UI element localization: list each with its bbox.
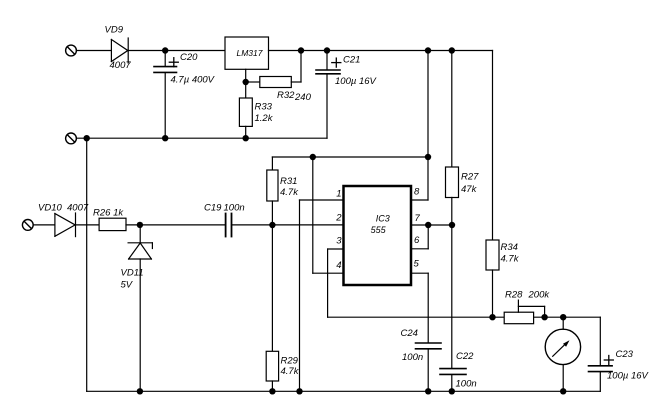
junction R27 top rail xyxy=(449,47,455,53)
junction VD11 top xyxy=(137,222,143,228)
capacitor C24 xyxy=(416,343,442,391)
svg-text:5V: 5V xyxy=(121,280,134,291)
potentiometer R28 xyxy=(504,300,544,324)
junction V+ riser top rail xyxy=(425,47,431,53)
junction pin4 riser xyxy=(310,154,316,160)
wire VD9 to LM317 xyxy=(128,50,225,52)
junction R29 bottom xyxy=(269,388,275,394)
junction pin7 pin6 xyxy=(425,222,431,228)
terminal X3 signal input xyxy=(22,220,33,231)
wire LM317 output to rail end xyxy=(269,50,493,52)
svg-text:VD11: VD11 xyxy=(121,268,144,279)
svg-text:100n: 100n xyxy=(456,379,477,390)
svg-text:R32: R32 xyxy=(277,90,295,101)
junction pin7 R27 line xyxy=(449,222,455,228)
svg-text:4.7µ 400V: 4.7µ 400V xyxy=(171,75,216,86)
zener diode VD11 xyxy=(128,225,152,391)
capacitor C21 xyxy=(316,51,341,139)
svg-text:240: 240 xyxy=(294,92,312,103)
wire bottom ground rail xyxy=(87,390,601,392)
svg-text:1: 1 xyxy=(336,188,341,199)
wire pin 7 stub xyxy=(411,224,452,226)
svg-text:5: 5 xyxy=(414,259,420,270)
regulator U1 LM317 xyxy=(225,37,269,69)
svg-text:3: 3 xyxy=(336,235,342,246)
junction C20 top xyxy=(162,47,168,53)
resistor R26 xyxy=(99,218,126,230)
wire pin 6 stub riser to pin 7 xyxy=(411,225,428,249)
svg-text:R27: R27 xyxy=(461,172,479,183)
svg-text:6: 6 xyxy=(414,235,420,246)
wire V+ riser x428 xyxy=(427,51,429,201)
svg-text:100n: 100n xyxy=(224,203,245,214)
junction R33 bottom xyxy=(243,135,249,141)
junction meter top xyxy=(560,314,566,320)
svg-text:200k: 200k xyxy=(528,290,551,301)
wire gnd riser left xyxy=(86,138,88,391)
junction C20 bottom xyxy=(162,135,168,141)
meter PA1 xyxy=(545,317,580,391)
svg-text:C21: C21 xyxy=(343,55,360,66)
svg-text:R33: R33 xyxy=(255,102,273,113)
capacitor C23 xyxy=(589,317,614,391)
svg-text:IC3: IC3 xyxy=(376,214,390,224)
svg-text:4.7k: 4.7k xyxy=(281,366,300,377)
wire pin 5 stub to C24 xyxy=(411,273,428,342)
svg-text:8: 8 xyxy=(414,187,420,198)
svg-text:VD9: VD9 xyxy=(105,25,124,36)
svg-text:555: 555 xyxy=(371,225,387,235)
junction C24 bottom xyxy=(425,388,431,394)
svg-text:7: 7 xyxy=(415,213,421,224)
junction C21 top xyxy=(324,47,330,53)
junction V+ rail at x428 xyxy=(425,154,431,160)
svg-text:VD10: VD10 xyxy=(38,203,62,214)
svg-text:4.7k: 4.7k xyxy=(501,254,520,265)
svg-text:100n: 100n xyxy=(402,352,423,363)
svg-text:100µ 16V: 100µ 16V xyxy=(607,371,650,382)
wire pin 1 stub and ground riser xyxy=(300,200,344,391)
wire R26 to C19 xyxy=(126,224,226,226)
wire pin 8 stub to V+ riser xyxy=(411,199,428,201)
capacitor C22 xyxy=(440,369,466,392)
svg-text:C24: C24 xyxy=(401,328,418,339)
wire pin 4 riser from V+ rail xyxy=(313,157,344,273)
svg-text:4.7k: 4.7k xyxy=(280,187,299,198)
svg-text:R34: R34 xyxy=(501,242,518,253)
svg-text:LM317: LM317 xyxy=(237,48,263,58)
diode VD9 xyxy=(111,38,128,63)
junction R34 bottom xyxy=(489,314,495,320)
wire X3 to VD10 xyxy=(33,224,55,226)
diode VD10 xyxy=(55,213,76,237)
svg-text:C23: C23 xyxy=(616,349,634,360)
wire pin 3 stub and output drop xyxy=(328,249,344,317)
svg-text:100µ 16V: 100µ 16V xyxy=(335,76,378,87)
junction R31 bottom pin2 line xyxy=(269,222,275,228)
resistor R32 xyxy=(246,51,301,88)
wire LM317 adj pin xyxy=(245,69,247,82)
wire output line y317 xyxy=(328,316,601,318)
junction VD11 bottom xyxy=(137,388,143,394)
wire mid rail (supply minus) xyxy=(76,137,327,139)
svg-text:47k: 47k xyxy=(461,184,478,195)
svg-text:2: 2 xyxy=(335,212,342,223)
terminal X1 top input xyxy=(66,45,77,56)
junction pin1 riser bottom xyxy=(296,388,302,394)
svg-text:R31: R31 xyxy=(280,176,297,187)
svg-text:C22: C22 xyxy=(456,351,474,362)
wire X1 to VD9 xyxy=(76,50,111,52)
junction R32 riser on top rail xyxy=(298,47,304,53)
junction gnd riser xyxy=(84,135,90,141)
junction adj node xyxy=(243,79,249,85)
resistor R31 xyxy=(267,157,278,225)
svg-text:R28: R28 xyxy=(505,290,523,301)
resistor R29 xyxy=(266,225,278,391)
svg-text:C19: C19 xyxy=(204,203,222,214)
junction meter bottom xyxy=(560,388,566,394)
wire VD10 to R26 xyxy=(76,224,100,226)
svg-text:C20: C20 xyxy=(180,52,198,63)
svg-text:4007: 4007 xyxy=(110,60,132,71)
resistor R27 xyxy=(446,51,459,369)
svg-text:4007: 4007 xyxy=(67,203,89,214)
wire V+ rail y157 xyxy=(272,156,428,158)
svg-text:R29: R29 xyxy=(281,356,299,367)
capacitor C19 xyxy=(226,214,344,237)
terminal X2 bottom of supply xyxy=(66,133,77,144)
junction R28 right xyxy=(541,314,547,320)
svg-text:1.2k: 1.2k xyxy=(255,113,274,124)
IC U2 555 timer IC3 xyxy=(344,186,412,285)
junction C22 bottom xyxy=(449,388,455,394)
svg-text:4: 4 xyxy=(336,260,341,271)
resistor R34 xyxy=(486,51,499,318)
svg-text:R26 1k: R26 1k xyxy=(93,208,124,219)
resistor R33 xyxy=(239,82,252,138)
capacitor C20 xyxy=(154,51,178,139)
